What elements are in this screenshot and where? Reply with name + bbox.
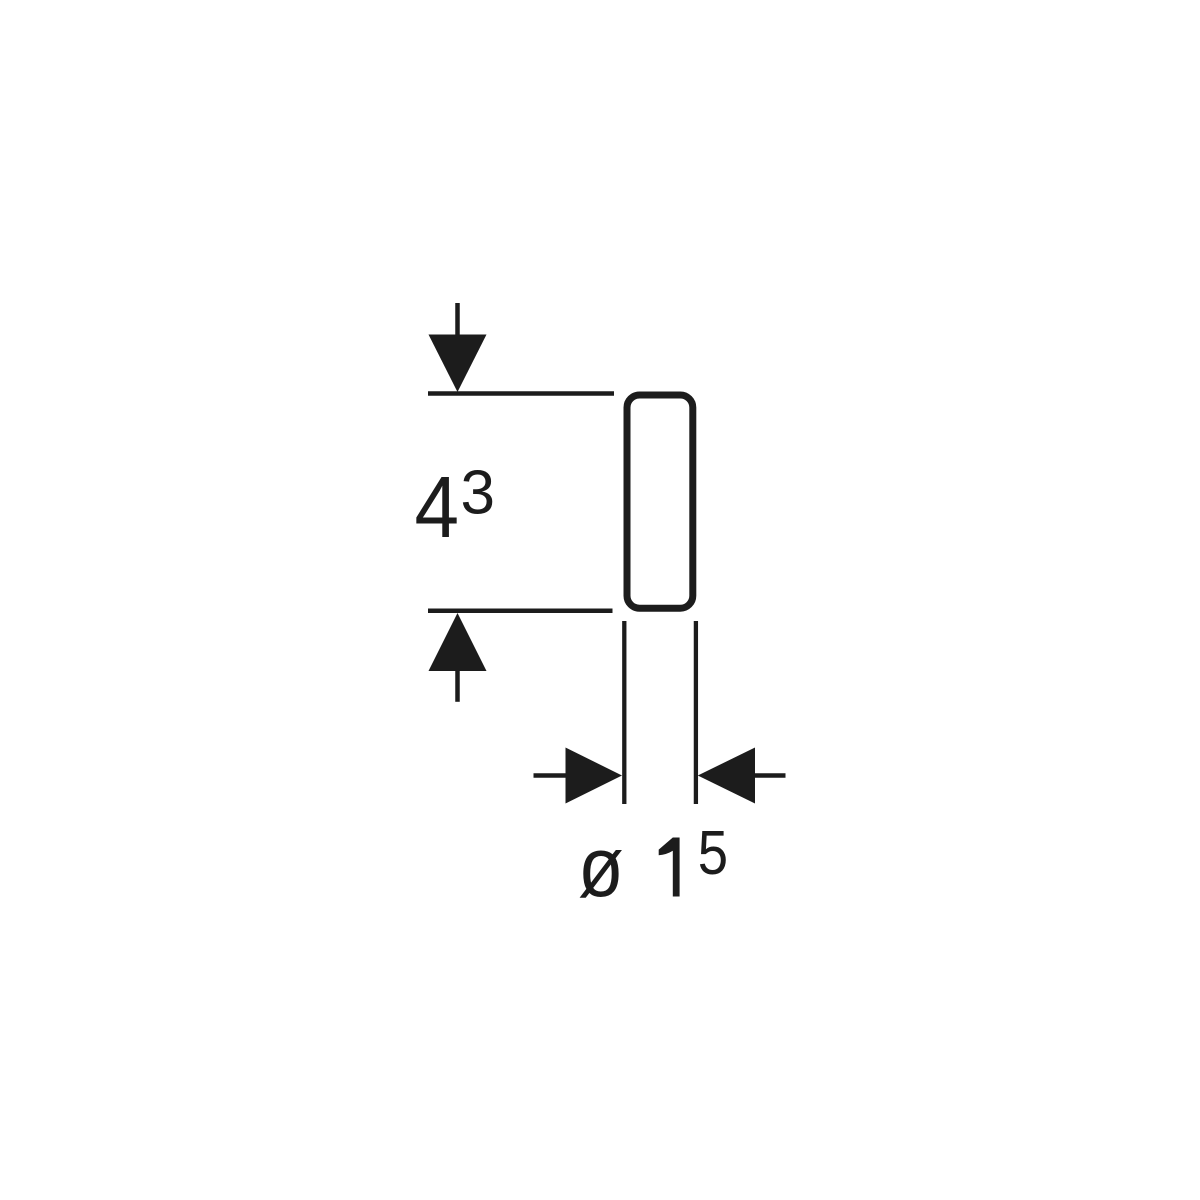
right width-arrow (left-pointing)	[698, 748, 755, 804]
bottom arrow stem	[455, 668, 460, 702]
left width-arrow (right-pointing)	[566, 748, 623, 804]
svg-text:4: 4	[415, 458, 460, 556]
svg-text:5: 5	[698, 819, 728, 888]
svg-text:3: 3	[461, 459, 495, 528]
top arrow (down-pointing)	[429, 335, 487, 393]
body: rounded rectangle outline	[627, 395, 693, 608]
label digit 1 (diameter value)	[659, 838, 680, 897]
lower dimension line	[428, 609, 613, 614]
top arrow stem	[455, 303, 460, 340]
right extension line	[694, 621, 698, 804]
upper dimension line	[428, 391, 614, 396]
left extension line	[622, 621, 626, 804]
svg-text:ø: ø	[578, 820, 624, 914]
right width-arrow stem	[753, 773, 786, 778]
bottom arrow (up-pointing)	[429, 613, 487, 671]
left width-arrow stem	[534, 773, 568, 778]
